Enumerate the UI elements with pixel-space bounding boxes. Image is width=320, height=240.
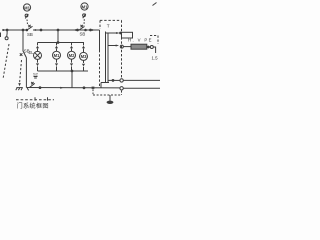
earth stem	[109, 95, 111, 101]
small hook under junction	[27, 88, 28, 90]
dashed diagonal leader left	[3, 44, 9, 79]
dashed corner top right	[150, 36, 158, 45]
drop from collector to bottom bus	[71, 71, 73, 88]
wire to right edge upper	[123, 79, 160, 81]
terminal ring right	[150, 46, 153, 49]
junction x at dashed ground branch	[92, 87, 94, 89]
switch S2 on top bus	[79, 25, 86, 31]
dashed branch down	[92, 90, 94, 96]
background	[0, 0, 160, 110]
svg-text:M1: M1	[24, 5, 30, 10]
plug connector under top-left motor	[25, 14, 28, 18]
brace tick right	[47, 97, 49, 100]
dot after bottom switch	[39, 87, 41, 89]
heater element box	[131, 44, 147, 49]
mechanical dashed link to switch SB1	[26, 20, 29, 26]
motor M2 lower connector	[70, 59, 73, 71]
hanging stub with ring	[6, 30, 8, 37]
chassis earth mark	[16, 88, 23, 91]
arrowhead at bus right end	[92, 29, 95, 31]
wire to heater	[123, 46, 131, 48]
switch S1 on top bus	[26, 25, 33, 31]
dot after heater	[147, 46, 149, 48]
svg-text:M2: M2	[69, 53, 75, 58]
tiny mark under label	[34, 77, 38, 79]
switch SB blade	[20, 51, 27, 58]
junction on distribution wire	[57, 42, 59, 44]
svg-text:门系统框图: 门系统框图	[17, 102, 49, 110]
dashed enclosure right edge lower	[121, 91, 123, 95]
arrowhead on leader	[18, 83, 21, 86]
motor column M1 connector	[55, 43, 58, 52]
svg-text:M1: M1	[54, 53, 60, 58]
bottom bus wire y=87.5	[26, 87, 120, 89]
bracket joining rails to bus	[101, 82, 109, 84]
rail right lower	[107, 46, 109, 83]
motor M2 middle	[68, 51, 76, 59]
motor M1 top-middle	[81, 3, 88, 10]
top-right tick mark	[153, 3, 157, 6]
dot on bottom bus	[83, 87, 85, 89]
indicator lamp EL	[34, 51, 42, 59]
wire down to bottom bus	[25, 58, 27, 88]
tall rail left	[105, 32, 107, 83]
motor M1 top-left	[23, 4, 30, 11]
label brace dashed	[16, 99, 54, 101]
dot on terminal wire	[112, 80, 114, 82]
terminal wire upper right	[108, 79, 120, 81]
dashed leader to earth	[20, 60, 22, 83]
svg-text:M1: M1	[82, 4, 88, 9]
wire from heater	[147, 46, 150, 48]
arrowhead after S1	[35, 29, 38, 31]
drop wire from bus to distribution line	[57, 30, 59, 43]
dashed enclosure right edge	[121, 20, 123, 78]
wire bracket to bottom bus	[100, 83, 102, 88]
connector stub upper with arrow	[106, 32, 122, 34]
svg-text:1.5: 1.5	[152, 56, 159, 61]
earth blob	[107, 101, 114, 104]
motor column M3 connector	[82, 46, 85, 53]
terminal ring lower	[120, 87, 123, 90]
wire from bus end into box	[99, 30, 101, 50]
brace tick left	[34, 97, 36, 100]
motor M1 lower connector	[55, 59, 58, 71]
small relay box	[122, 32, 133, 38]
arrowhead on bottom bus	[60, 87, 63, 89]
dashed run to earth point	[93, 94, 122, 96]
svg-text:S2: S2	[33, 72, 39, 77]
motor M3	[80, 52, 88, 60]
terminal ring upper	[120, 79, 123, 82]
junction at drop	[57, 29, 59, 31]
dashed enclosure left edge	[99, 20, 101, 29]
plug connector under top-middle motor	[83, 14, 86, 18]
svg-text:SB: SB	[24, 49, 30, 54]
junction to SB branch	[22, 29, 24, 31]
SB branch vertical from top bus	[22, 30, 24, 51]
wire to right edge lower	[123, 87, 160, 89]
terminal ring left of heater	[120, 45, 123, 48]
top bus wire continues	[33, 29, 100, 31]
lamp column connector	[36, 43, 39, 52]
svg-text:T: T	[107, 24, 110, 29]
left end dot	[6, 29, 8, 31]
switch on bottom bus	[30, 82, 35, 88]
connector stub lower with arrow	[108, 45, 119, 47]
motor M1 middle	[53, 51, 61, 59]
svg-text:SB: SB	[27, 32, 33, 37]
wire and down stub	[153, 47, 155, 53]
dashed enclosure left edge lower	[99, 50, 101, 87]
dot	[40, 29, 42, 31]
dot before S2	[77, 29, 79, 31]
svg-text:M3: M3	[81, 54, 87, 59]
top bus wire y=30	[2, 29, 27, 31]
loop left edge	[107, 33, 109, 46]
dashed enclosure top edge	[100, 19, 122, 21]
edge tick	[0, 33, 2, 38]
junction on collector	[71, 70, 73, 72]
collector wire y=71	[38, 70, 89, 72]
arrowhead before S2	[73, 29, 76, 31]
lamp lower connector	[36, 59, 39, 71]
left arrowhead	[3, 29, 6, 31]
motor M3 lower connector	[82, 60, 85, 71]
svg-text:SB: SB	[80, 32, 86, 37]
svg-text:H. V PE: H. V PE	[128, 38, 152, 43]
mechanical dashed link to switch SB2	[83, 19, 85, 25]
distribution wire y=42.5	[38, 43, 84, 46]
motor column M2 connector	[70, 43, 73, 52]
dot at bus right end	[90, 29, 92, 31]
